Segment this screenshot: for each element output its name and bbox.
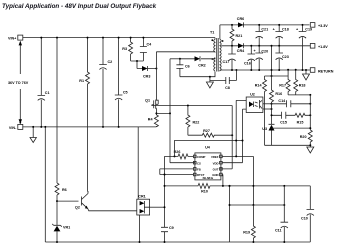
wire snubber bottom xyxy=(131,61,144,69)
svg-text:C19: C19 xyxy=(305,28,312,32)
svg-text:C6: C6 xyxy=(185,65,190,69)
wire sec top to 3.3V rail xyxy=(219,25,221,39)
capacitor C19 xyxy=(296,24,312,71)
svg-text:C20: C20 xyxy=(261,50,268,54)
wire OUT to gate xyxy=(220,106,233,169)
wire left drop to bus xyxy=(44,127,46,242)
resistor R19 xyxy=(243,205,255,243)
wire sec tap to 1.8V rail xyxy=(221,45,310,47)
svg-text:C23: C23 xyxy=(282,55,289,59)
svg-text:VREF: VREF xyxy=(211,155,219,159)
diode CR6 xyxy=(237,17,244,27)
svg-text:C8: C8 xyxy=(225,86,230,90)
capacitor C18 xyxy=(273,24,289,47)
svg-text:+1.8V: +1.8V xyxy=(318,45,328,49)
resistor R4 xyxy=(148,111,159,127)
wire opto right top to C14 row xyxy=(263,103,272,105)
svg-text:CR6: CR6 xyxy=(237,17,244,21)
svg-text:C21: C21 xyxy=(261,28,268,32)
svg-text:C2: C2 xyxy=(108,60,113,64)
svg-text:FB: FB xyxy=(197,168,201,172)
wire VIN- to CR1 xyxy=(137,127,139,199)
capacitor C2 xyxy=(99,37,112,128)
wire opto right bottom xyxy=(263,108,272,110)
capacitor C21 xyxy=(255,24,268,47)
ground (input) xyxy=(30,126,36,143)
svg-text:R3: R3 xyxy=(122,47,127,51)
wire VDD branch to IC xyxy=(170,58,180,60)
ground (aux) xyxy=(206,81,213,89)
wire primary return xyxy=(156,51,215,53)
svg-text:R27: R27 xyxy=(203,129,210,133)
svg-text:R1: R1 xyxy=(79,79,84,83)
wire CR1 bottom xyxy=(139,215,141,242)
wire VREF right xyxy=(222,100,253,205)
svg-text:OUT: OUT xyxy=(213,168,219,172)
capacitor C6 xyxy=(176,58,189,77)
IC U1 ISL684x xyxy=(194,146,223,181)
shunt regulator U3 xyxy=(262,124,310,145)
wire VDD right xyxy=(222,109,246,163)
resistor R26 xyxy=(165,150,194,159)
capacitor C8 xyxy=(225,77,230,90)
resistor R3 xyxy=(122,37,132,61)
svg-text:C11: C11 xyxy=(275,229,282,233)
svg-text:Typical Application - 48V Inpu: Typical Application - 48V Input Dual Out… xyxy=(2,3,157,10)
svg-text:U3: U3 xyxy=(262,127,267,131)
svg-text:Q1: Q1 xyxy=(145,99,150,103)
capacitor C15 + resistor R15 xyxy=(271,112,312,125)
svg-text:T1: T1 xyxy=(210,31,214,35)
terminal RETURN xyxy=(310,68,333,74)
wire R17 R18 bottoms xyxy=(288,94,310,96)
capacitor C9 xyxy=(161,226,174,243)
wire gate xyxy=(152,104,232,107)
svg-text:C18: C18 xyxy=(282,28,289,32)
svg-text:36V TO 76V: 36V TO 76V xyxy=(8,81,29,85)
node base wire xyxy=(57,200,79,202)
svg-text:C9: C9 xyxy=(169,226,174,230)
wire aux top to CR2 xyxy=(201,58,215,59)
capacitor C11 xyxy=(275,186,288,243)
terminal VIN+ xyxy=(8,35,23,40)
svg-text:C1: C1 xyxy=(45,91,50,95)
wire divider top xyxy=(265,70,289,76)
svg-text:R14: R14 xyxy=(255,84,263,88)
svg-text:CR2: CR2 xyxy=(198,64,205,68)
svg-text:R17: R17 xyxy=(279,84,286,88)
wire current sense xyxy=(156,59,195,163)
wire drain vertical xyxy=(155,52,157,97)
capacitor C20 xyxy=(255,46,268,71)
capacitor C10 xyxy=(301,209,314,220)
resistor R22 xyxy=(186,105,199,136)
svg-text:COMP: COMP xyxy=(197,155,206,159)
diode CR3 xyxy=(137,66,157,79)
svg-text:VDD: VDD xyxy=(213,161,219,165)
zener VR1 xyxy=(52,201,70,243)
svg-text:C16: C16 xyxy=(244,62,251,66)
resistor R14 xyxy=(255,76,267,145)
wire lower right row xyxy=(230,204,285,206)
resistor R27 xyxy=(188,129,233,137)
terminal +1.8V xyxy=(310,44,328,50)
svg-text:VIN+: VIN+ xyxy=(8,37,16,41)
svg-text:C5: C5 xyxy=(123,91,128,95)
svg-text:+: + xyxy=(273,28,275,32)
wire Q2 emitter to CR1 xyxy=(89,210,137,212)
wire VIN- rail xyxy=(23,126,157,128)
diode CR2 xyxy=(180,56,206,67)
resistor R17 xyxy=(279,76,290,95)
svg-text:GND: GND xyxy=(212,173,218,177)
svg-text:C15: C15 xyxy=(280,121,287,125)
svg-text:R6: R6 xyxy=(62,188,67,192)
terminal VIN- xyxy=(9,124,23,129)
wire feedback bottom xyxy=(265,144,311,146)
svg-text:VR1: VR1 xyxy=(63,226,70,230)
svg-text:CR1: CR1 xyxy=(138,195,145,199)
terminal +3.3V xyxy=(310,23,328,28)
svg-text:+3.3V: +3.3V xyxy=(318,24,328,28)
svg-text:CR3: CR3 xyxy=(143,75,150,79)
transistor Q2 xyxy=(75,191,89,211)
wire bottom ground bus xyxy=(45,241,310,243)
wire COMP drop xyxy=(164,156,166,242)
resistor R1 xyxy=(79,37,89,192)
input range arrow xyxy=(19,45,21,121)
diode CR4 xyxy=(237,43,245,53)
resistor R20 xyxy=(300,95,313,145)
svg-text:VIN-: VIN- xyxy=(9,126,17,130)
resistor R18 xyxy=(294,69,306,95)
svg-text:C14: C14 xyxy=(278,99,286,103)
wire RETURN rail xyxy=(220,69,310,71)
svg-text:+: + xyxy=(296,28,298,32)
wire C10 drop xyxy=(309,186,311,242)
svg-text:R18: R18 xyxy=(299,84,306,88)
svg-text:ISL684x: ISL684x xyxy=(203,176,214,180)
svg-text:R22: R22 xyxy=(193,121,200,125)
wire 3.3V rail xyxy=(220,24,310,26)
wire COMP compensation loop xyxy=(175,141,243,157)
svg-text:C10: C10 xyxy=(301,216,308,220)
capacitor C17 xyxy=(223,46,236,71)
capacitor C1 xyxy=(38,37,50,128)
svg-text:RETURN: RETURN xyxy=(318,70,334,74)
resistor R16 xyxy=(270,45,283,125)
wire vertical x57 (bias feed) xyxy=(56,38,58,183)
svg-text:R10: R10 xyxy=(201,190,208,194)
svg-text:R21: R21 xyxy=(236,34,243,38)
svg-text:C17: C17 xyxy=(223,60,230,64)
svg-text:CS: CS xyxy=(197,161,201,165)
diode pair CR1 xyxy=(137,195,150,215)
wire GND down xyxy=(222,175,229,243)
wire FB / RTCT xyxy=(160,169,194,175)
capacitor C23 xyxy=(275,46,288,71)
svg-text:CR4: CR4 xyxy=(237,49,245,53)
resistor R6 xyxy=(55,183,67,201)
wire VIN+ rail xyxy=(23,37,215,39)
capacitor C16 xyxy=(244,45,256,71)
wire aux ground xyxy=(180,70,237,81)
capacitor C14 xyxy=(272,99,312,107)
transformer T1 xyxy=(210,31,224,72)
capacitor C4 xyxy=(140,37,152,61)
svg-text:R19: R19 xyxy=(243,231,250,235)
ground (feedback) xyxy=(307,144,314,153)
wire CR1 right xyxy=(150,206,165,208)
ground (return) xyxy=(303,69,310,80)
capacitor C5 xyxy=(115,37,128,128)
svg-text:R15: R15 xyxy=(297,121,304,125)
svg-text:R16: R16 xyxy=(275,92,282,96)
svg-text:Q2: Q2 xyxy=(75,206,80,210)
mosfet Q1 xyxy=(145,97,158,111)
optocoupler U2 xyxy=(246,93,263,113)
svg-text:R20: R20 xyxy=(300,135,307,139)
svg-text:+: + xyxy=(254,49,256,53)
wire W2 + resistor R10 xyxy=(164,183,311,193)
resistor R21 xyxy=(230,24,242,47)
svg-text:U2: U2 xyxy=(250,93,255,97)
